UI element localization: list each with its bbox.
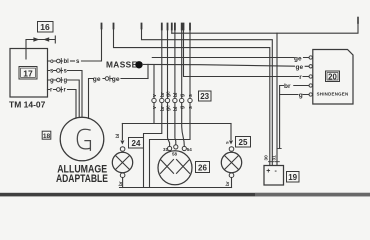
svg-text:-: -	[275, 168, 278, 175]
wire lamp 25 to ground rail	[231, 178, 233, 188]
svg-text:s: s	[50, 69, 54, 75]
wire row 2 from box 17: s / s	[48, 70, 57, 72]
center harness vertical wire 4	[174, 24, 177, 145]
svg-text:bl: bl	[115, 134, 121, 138]
label 24 box	[129, 138, 144, 149]
label 25 box	[236, 137, 251, 148]
arrowhead left on 16 lead	[43, 37, 49, 42]
svg-text:+: +	[266, 168, 270, 175]
svg-text:ADAPTABLE: ADAPTABLE	[56, 173, 108, 185]
svg-text:g: g	[180, 106, 186, 109]
svg-text:r: r	[299, 74, 302, 81]
wire lamp feed line (turn signals)	[122, 123, 231, 125]
wire ge-o-ge row (to generator)	[89, 79, 149, 119]
wire stub B top to battery plus strand	[142, 24, 273, 166]
wire dimension-style lead from 16 into box 17	[26, 36, 55, 59]
label 20 inside	[326, 71, 340, 82]
rotated wire labels above connector row	[152, 91, 194, 97]
generator G unit 18	[60, 117, 104, 161]
svg-text:31: 31	[271, 155, 277, 161]
connector pair symbol row 1	[57, 59, 61, 63]
svg-text:20: 20	[328, 72, 337, 81]
label 19 box	[287, 172, 300, 183]
center harness vertical wire 3	[168, 24, 170, 147]
connector pair symbol row 4	[57, 88, 61, 92]
svg-text:MASSE: MASSE	[106, 60, 138, 70]
wire stub A top	[114, 24, 270, 166]
svg-text:r: r	[50, 88, 53, 94]
svg-text:26: 26	[198, 163, 207, 172]
svg-text:19: 19	[288, 173, 297, 182]
svg-text:o: o	[50, 59, 54, 65]
svg-text:ge: ge	[93, 76, 101, 83]
svg-text:g: g	[180, 94, 186, 97]
label 26 box	[196, 162, 210, 173]
svg-text:23: 23	[200, 92, 209, 101]
wire row 1 from box 17: o / bl / s	[48, 60, 57, 62]
lamp 24 bottom terminal	[120, 173, 125, 178]
svg-text:g: g	[64, 78, 68, 84]
lamp 25 (indicator light)	[221, 152, 241, 172]
svg-text:g: g	[50, 78, 54, 84]
svg-text:24: 24	[132, 139, 141, 148]
box 20 (regulator/rectifier)	[313, 50, 353, 105]
connector label 16	[38, 22, 54, 33]
svg-text:25: 25	[239, 138, 248, 147]
arrow terminal into lamp 24	[120, 141, 124, 145]
svg-text:v: v	[152, 106, 158, 109]
wire long top line	[172, 22, 358, 33]
wire r row to box 20	[184, 24, 310, 77]
lamp 24 top terminal	[120, 147, 125, 152]
headlamp 26 (twin filament)	[158, 151, 192, 185]
box 17 (CDI ignition unit)	[10, 49, 48, 98]
svg-text:54: 54	[187, 147, 193, 152]
svg-text:ge: ge	[166, 91, 172, 97]
wire row3 to generator	[68, 80, 80, 118]
svg-text:bl: bl	[173, 106, 179, 111]
connector pair symbol row 2	[57, 69, 61, 73]
svg-text:ge: ge	[166, 105, 172, 111]
wire ge row1 to box 20	[152, 57, 309, 59]
lamp 25 top terminal	[229, 147, 234, 152]
wire row2 to generator	[68, 71, 83, 118]
svg-text:31: 31	[163, 147, 169, 152]
svg-text:r: r	[64, 88, 67, 94]
svg-text:bl: bl	[64, 59, 70, 65]
svg-text:bl: bl	[173, 92, 179, 97]
label 23 box	[199, 91, 212, 101]
scan edge dark band at bottom	[0, 193, 370, 197]
connector pair symbol row 3	[57, 78, 61, 82]
svg-text:ge: ge	[296, 64, 304, 71]
lamp 24 (indicator light)	[112, 152, 132, 172]
battery terminal connector marks	[269, 161, 280, 163]
svg-text:s: s	[64, 69, 68, 75]
svg-text:58: 58	[172, 151, 178, 156]
wire lamp 24 to ground rail	[122, 178, 124, 188]
connector row circles (plug 23)	[152, 98, 192, 102]
svg-text:s: s	[188, 106, 194, 109]
rotated wire labels below connector row	[152, 105, 194, 111]
svg-text:g: g	[299, 92, 303, 99]
arrow terminal into lamp 25	[229, 141, 233, 145]
label 18 box	[42, 131, 51, 140]
arrowhead right on 16 lead	[33, 37, 39, 42]
wire branch down to ge-ge connector row	[147, 64, 149, 78]
svg-text:16: 16	[40, 22, 50, 32]
wire stub joining long line	[171, 24, 173, 34]
MASSE ground dot	[135, 61, 142, 68]
svg-text:v: v	[152, 94, 158, 97]
center harness vertical wire 2	[144, 24, 162, 188]
center harness vertical wire 6	[150, 24, 191, 188]
wire row 3 from box 17: g / g	[48, 79, 57, 81]
connector pair symbol ge row	[105, 77, 109, 81]
wire row4 to generator	[68, 90, 77, 119]
wire MASSE bus to box 20 row2 (ge)	[143, 64, 309, 66]
wire row 4 from box 17: r / r	[48, 89, 57, 91]
svg-text:TM 14-07: TM 14-07	[9, 100, 46, 110]
svg-text:17: 17	[23, 69, 33, 79]
svg-text:30: 30	[264, 155, 270, 161]
ground rail at bottom	[120, 187, 232, 189]
center harness wire 1 (from MASSE bus)	[153, 65, 155, 124]
svg-text:s: s	[76, 59, 80, 65]
svg-text:ge: ge	[294, 55, 302, 62]
svg-text:SHINDENGEN: SHINDENGEN	[317, 92, 349, 97]
svg-text:br: br	[225, 181, 231, 186]
headlamp 26 terminals	[168, 146, 172, 150]
svg-text:br: br	[284, 83, 291, 90]
G letter	[77, 129, 90, 150]
connector circles at box 20 inputs	[309, 56, 312, 96]
svg-text:s: s	[226, 141, 231, 144]
wire row1 continues right and up to top stub	[82, 24, 102, 61]
wire g row to box 20	[280, 94, 309, 96]
svg-text:s: s	[188, 94, 194, 97]
battery 19	[264, 166, 284, 186]
wire branch to battery minus	[276, 33, 278, 165]
wire drop to lamp 24	[121, 124, 123, 140]
wire br row to box 20, with drop stub	[280, 86, 309, 149]
lamp 25 bottom terminal	[229, 173, 234, 178]
svg-text:ge: ge	[112, 76, 120, 83]
wire end ticks at top edge	[102, 24, 191, 30]
wire drop to lamp 25	[230, 124, 232, 140]
svg-text:br: br	[118, 181, 124, 186]
center harness vertical wire 5	[182, 24, 185, 147]
label 17 inside box	[19, 67, 37, 80]
svg-text:18: 18	[43, 133, 51, 140]
